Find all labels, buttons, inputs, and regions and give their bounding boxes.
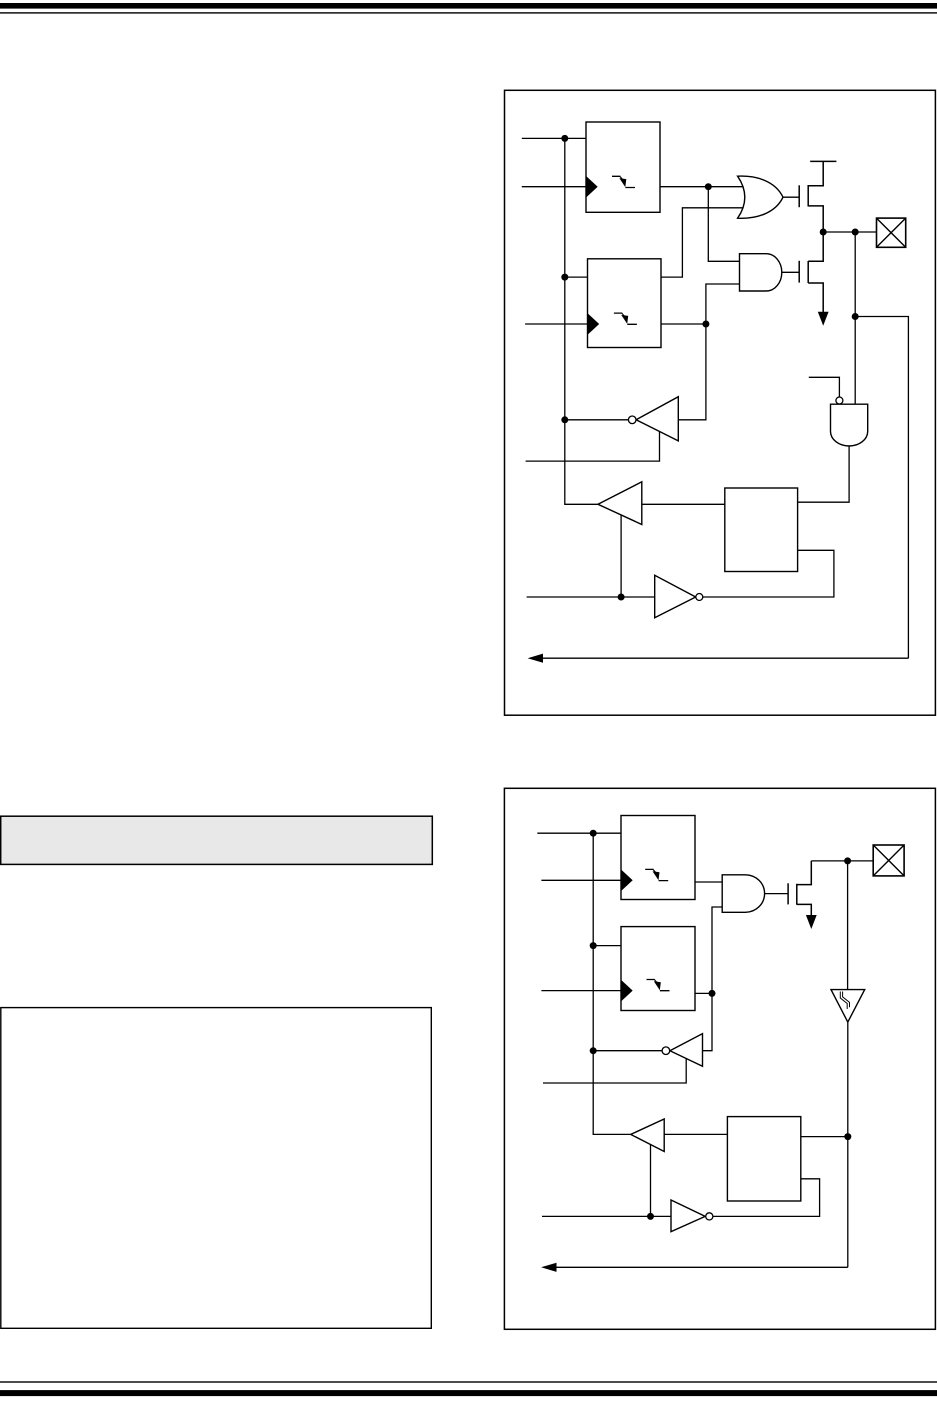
flip-flop box U2 (fig1 bottom) (588, 259, 662, 348)
clock triangle U4 (622, 981, 633, 1000)
figure 2 frame (504, 788, 935, 1329)
AND gate G2 (740, 254, 782, 291)
wire clock2 fig1 (525, 323, 587, 325)
wire G6 input (527, 596, 655, 598)
wire AND output to M3 gate (765, 893, 789, 895)
clock triangle U3 (622, 871, 633, 890)
current sink arrow fig2 (806, 915, 817, 929)
wire delay box output to feedback rail (801, 1136, 848, 1138)
note frame rectangle (1, 1008, 432, 1329)
node dot pad branch fig2 (844, 857, 851, 864)
inverter G6 (right-pointing, output bubble) (655, 575, 703, 617)
wire pad net down to NAND and right rail (855, 232, 908, 658)
MOSFET M3 gate plate (787, 883, 789, 904)
wire U2 QN to OR gate lower input (661, 208, 745, 277)
node dot G11 input (647, 1213, 654, 1220)
wire U4 Q output (695, 992, 712, 994)
node dot input1 fig1 (561, 135, 568, 142)
wire G11 input (542, 1215, 671, 1217)
wire G8 output down to feedback (847, 1022, 849, 1267)
vertical bus wire left fig1 (565, 138, 598, 504)
node dot M1/M2 drain (820, 229, 827, 236)
wire input1 fig1 (522, 137, 586, 139)
bottom thin rule (0, 1381, 937, 1382)
current sink arrow fig1 (818, 312, 829, 326)
MOSFET M3 channel and leads (797, 861, 812, 916)
wire U2 Q to AND lower input and down to inverter output (678, 284, 740, 420)
flip-flop box U3 (fig2 top) (621, 816, 695, 900)
delay box B1 fig1 (725, 488, 798, 572)
wire clock1 fig1 (522, 186, 586, 188)
MOSFET M1 channel and leads (808, 161, 823, 232)
wire G10 tap down (650, 1144, 652, 1216)
inverter G4 (left-pointing, input bubble) (628, 397, 678, 441)
wire AND output to M2 gate (782, 271, 799, 273)
node dot delay box output fig2 (844, 1133, 851, 1140)
wire enable stub to G4 (526, 431, 660, 461)
inverter G11 (right-pointing, output bubble) fig2 (671, 1200, 713, 1232)
wire G6 output to delay box (703, 550, 834, 597)
wire U2 Q output (661, 323, 706, 325)
slew-rate triangle G8 (831, 990, 865, 1023)
wire G3 output to delay box (798, 446, 850, 502)
bottom thick rule (0, 1390, 937, 1396)
node dot U4 Q output (709, 990, 716, 997)
delay box B2 fig2 (727, 1117, 800, 1201)
falling-edge icon U3 (645, 869, 668, 880)
falling-edge icon U2 (614, 313, 637, 324)
MOSFET M2 channel and leads (808, 232, 823, 313)
falling-edge icon U1 (612, 176, 635, 187)
grey note bar (1, 816, 433, 864)
wire drain node to pad fig1 (823, 231, 876, 233)
wire input1 fig2 (537, 832, 621, 834)
clock triangle U2 (588, 314, 599, 333)
buffer G10 (left-pointing) fig2 (631, 1119, 665, 1152)
feedback arrow line fig2 (556, 1266, 848, 1268)
wire delay box to G10 input (664, 1133, 727, 1135)
wire U1 output to OR gate (660, 186, 745, 188)
squiggle icon inside G8 (840, 992, 849, 1010)
wire pad net down to slew triangle (847, 861, 849, 990)
node dot pad branch fig1 (852, 229, 859, 236)
wire G5 tap down (620, 515, 622, 597)
node dot G4 input (561, 416, 568, 423)
NAND gate G3 (vertical) (831, 404, 868, 446)
wire clock2 fig2 (541, 990, 621, 992)
wire OR output to M1 gate (783, 196, 799, 198)
pad X1 (crossed square) fig1 (877, 218, 906, 247)
wire U4 Q to AND lower input and down to inverter output (703, 907, 723, 1051)
clock triangle U1 (587, 177, 598, 196)
wire enable stub to G9 (543, 1058, 686, 1083)
feedback arrow line fig1 (542, 657, 908, 659)
buffer G5 (left-pointing) (598, 482, 642, 525)
node dot right rail branch (852, 313, 859, 320)
supply rail bar fig1 (810, 160, 836, 162)
arrowhead fig2 (541, 1263, 556, 1272)
node dot input1 fig2 (590, 830, 597, 837)
top thick rule (0, 3, 937, 9)
node dot G9 input (590, 1047, 597, 1054)
figure 1 frame (505, 90, 936, 715)
flip-flop box U4 (fig2 bottom) (621, 927, 695, 1011)
flip-flop box U1 (fig1 top) (586, 122, 660, 212)
OR gate G1 (738, 176, 783, 218)
wire clock1 fig2 (541, 879, 621, 881)
inverter G9 (left-pointing, input bubble) fig2 (662, 1034, 702, 1067)
wire U1 output down to AND input (708, 187, 740, 262)
stub wire to G3 bubble (809, 377, 840, 397)
node dot U2 Q output (702, 321, 709, 328)
pad X2 (crossed square) fig2 (873, 845, 904, 876)
wire U2 D input (565, 276, 588, 278)
node dot G6 input (618, 594, 625, 601)
wire G9 input (593, 1050, 662, 1052)
wire delay box to G5 input (642, 503, 725, 505)
node dot U1 output (705, 183, 712, 190)
arrowhead fig1 (528, 654, 543, 663)
wire M3 drain to pad fig2 (811, 860, 873, 862)
top thin rule (0, 12, 937, 13)
wire U4 D input (593, 945, 621, 947)
wire G11 output to delay box (713, 1179, 820, 1217)
falling-edge icon U4 (647, 980, 670, 991)
AND gate G7 fig2 (722, 875, 764, 913)
MOSFET M2 gate plate (798, 261, 800, 283)
node dot U2 D input (561, 274, 568, 281)
node dot U4 D input (590, 942, 597, 949)
vertical bus wire left fig2 (593, 833, 631, 1134)
wire G4 input (565, 419, 629, 421)
MOSFET M1 gate plate (798, 185, 800, 207)
bubble on G3 input (836, 397, 843, 404)
wire U3 output to AND gate (695, 881, 722, 883)
